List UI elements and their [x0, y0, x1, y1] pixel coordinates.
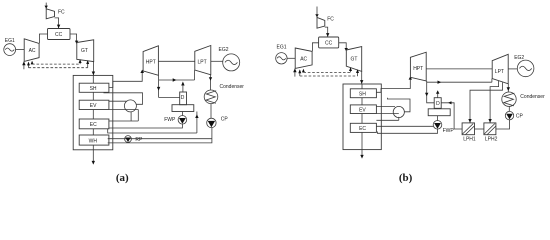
gas turbine GT (b) [346, 47, 361, 72]
svg-text:GT: GT [81, 48, 88, 54]
LPT extraction to LPH1 with arrow (b) [468, 82, 502, 123]
dashed cooling line upper [32, 63, 80, 65]
wire CC to GT with arrow [70, 34, 78, 44]
cooling air riser into GT (left) [79, 59, 82, 64]
evaporator EV [79, 100, 109, 109]
svg-text:HPT: HPT [413, 66, 423, 72]
feedwater pump FWP [164, 116, 187, 125]
svg-text:SH: SH [90, 86, 97, 92]
HPT exhaust wire down with arrow [157, 75, 160, 97]
wire shaft HPT-LPT (b) [426, 68, 492, 70]
wire LPH1 to tank (b) [441, 103, 462, 129]
compressor AC (b) [295, 48, 312, 69]
fuel compressor FC [46, 9, 54, 19]
cooling air riser into AC (b outer) [298, 69, 301, 76]
flue gas outlet arrow [92, 145, 95, 165]
wire condenser to CP (b) [508, 106, 510, 111]
wire EC to drum [109, 110, 138, 122]
gas path wire inside HRSG [92, 75, 94, 135]
svg-text:HPT: HPT [146, 59, 156, 65]
svg-text:FC: FC [327, 16, 334, 22]
wire HPT exhaust to deaerator [159, 97, 180, 99]
svg-text:FWP: FWP [164, 117, 176, 123]
svg-text:Condenser: Condenser [220, 84, 245, 90]
svg-text:LPT: LPT [198, 60, 207, 66]
generator EG1 (b) [276, 45, 287, 64]
deaerator D (b) [434, 98, 441, 109]
condensate pump CP [207, 116, 229, 127]
economizer EC (b) [350, 123, 376, 132]
wire condensate line through RP to WH [108, 138, 212, 140]
wire FWP to EC [109, 124, 182, 128]
svg-text:FWP: FWP [443, 128, 455, 134]
flue gas outlet arrow (b) [360, 150, 363, 159]
wire FWP discharge to EC (b) [377, 129, 437, 133]
wire FC to CC with arrow (b) [325, 27, 330, 37]
cooling air riser into AC (inner) [31, 61, 34, 65]
HRSG outer box (b) [343, 84, 381, 150]
svg-text:CC: CC [55, 32, 63, 38]
wire LPH2 to LPH1 (b) [475, 128, 484, 130]
deaerator vent arrow (b) [436, 90, 439, 97]
wire drum to SH [104, 92, 143, 104]
wire shaft HPT-LPT [158, 60, 194, 62]
wire CC to GT with arrow (b) [339, 43, 348, 52]
wire WH return line [108, 128, 212, 143]
svg-text:EV: EV [90, 103, 97, 109]
svg-text:(b): (b) [399, 172, 413, 184]
svg-text:EG1: EG1 [5, 38, 15, 44]
condenser [204, 84, 244, 104]
crossover wire to LPT with flow arrow [159, 70, 195, 82]
wire CP to LPH2 (b) [496, 120, 510, 129]
wire WH outlet to tank with arrow [108, 112, 199, 134]
dashed cooling line lower (b) [300, 75, 358, 77]
LP heater LPH2 [484, 123, 498, 143]
svg-text:AC: AC [300, 56, 307, 62]
svg-text:EG2: EG2 [219, 47, 229, 53]
svg-text:LPH1: LPH1 [463, 137, 476, 143]
wire SH to HPT with arrow (b) [376, 76, 412, 92]
combustion chamber CC (b) [319, 37, 339, 48]
wire SH to HPT with arrow [109, 70, 144, 88]
svg-text:D: D [181, 95, 185, 101]
cooling air riser into GT (b left) [349, 67, 352, 72]
svg-text:(a): (a) [116, 172, 129, 184]
generator EG2 (b) [514, 55, 534, 77]
condenser (b) [502, 92, 545, 106]
fuel inlet arrow [45, 3, 48, 9]
svg-text:EG2: EG2 [514, 55, 524, 61]
air inlet arrow into AC (b) [293, 68, 296, 76]
wire shaft EG1-AC [16, 49, 25, 51]
wire shaft LPT-EG2 [211, 60, 223, 62]
wire drum to SH (b) [387, 98, 410, 112]
gas turbine GT [77, 40, 94, 62]
wire tank to FWP (b) [437, 116, 439, 121]
svg-text:FC: FC [58, 10, 65, 16]
feedwater tank (b) [428, 109, 450, 116]
LPT exhaust arrow to condenser (b) [507, 84, 510, 92]
svg-text:SH: SH [359, 92, 366, 98]
fuel inlet arrow (b) [315, 7, 318, 18]
svg-text:WH: WH [89, 138, 98, 144]
cooling air riser into AC (b inner) [302, 69, 305, 73]
wire AC to CC [39, 34, 47, 43]
wire shaft EG1-AC (b) [287, 57, 295, 59]
evaporator EV (b) [350, 105, 376, 114]
LP heater LPH1 [462, 123, 476, 143]
HRSG outer box [73, 75, 113, 149]
GT exhaust wire with arrow into HRSG [92, 62, 95, 76]
HPT inlet arrow at corner [141, 70, 144, 73]
svg-text:AC: AC [29, 48, 36, 54]
svg-text:D: D [436, 101, 440, 107]
svg-text:CP: CP [516, 114, 524, 120]
wire shaft LPT-EG2 (b) [508, 68, 517, 70]
svg-text:EC: EC [359, 126, 366, 132]
turbine LPT [195, 46, 211, 75]
generator EG2 [219, 47, 240, 71]
wire tank to FWP [181, 112, 183, 116]
wire EC to FWP suction (b) [376, 125, 433, 127]
crossover wire to LPT with flow arrow (b) [427, 79, 492, 84]
air inlet arrow into AC [22, 61, 25, 69]
combustion chamber CC [48, 29, 71, 40]
dashed cooling line upper (b) [303, 71, 350, 73]
condensate pump CP (b) [505, 111, 523, 119]
wire AC to CC (b) [312, 43, 318, 52]
svg-text:LPH2: LPH2 [485, 137, 498, 143]
feedwater tank [172, 105, 194, 112]
GT exhaust wire with arrow into HRSG (b) [360, 71, 363, 84]
feedwater pump FWP (b) [433, 121, 454, 135]
wire condenser to CP [210, 104, 212, 119]
turbine HPT [143, 46, 158, 76]
steam drum (b) [393, 106, 404, 117]
recirculation pump RP [125, 136, 143, 144]
svg-text:EC: EC [90, 122, 97, 128]
svg-text:GT: GT [351, 56, 358, 62]
svg-text:CP: CP [221, 116, 229, 122]
compressor AC [24, 39, 39, 62]
HPT exhaust wire down to tank with arrow (b) [425, 81, 434, 103]
LPT extraction to LPH2 with arrow (b) [488, 81, 498, 123]
svg-text:CC: CC [325, 41, 333, 47]
superheater SH (b) [350, 89, 376, 98]
cooling air riser into GT (b right) [356, 69, 359, 76]
svg-text:RP: RP [135, 137, 143, 143]
water heater WH [79, 135, 109, 145]
gas path wire inside HRSG (b) [361, 84, 363, 150]
deaerator vent arrow [181, 82, 184, 93]
svg-text:Condenser: Condenser [520, 94, 545, 100]
svg-text:EG1: EG1 [277, 45, 287, 51]
generator EG1 [4, 38, 16, 55]
wire EV risers to drum [109, 101, 138, 109]
superheater SH [79, 83, 109, 92]
turbine HPT (b) [410, 52, 426, 81]
svg-text:LPT: LPT [495, 69, 504, 75]
svg-text:EV: EV [359, 108, 366, 114]
wire EV risers to drum (b) [376, 106, 398, 113]
wire FC to CC with arrow [55, 18, 61, 28]
economizer EC [79, 119, 109, 129]
wire EC to drum (b) [376, 117, 398, 120]
dashed cooling line lower [29, 67, 88, 69]
cooling air riser into AC (outer) [27, 62, 30, 68]
steam drum [124, 100, 136, 112]
cooling air riser into GT (right) [86, 60, 89, 67]
fuel compressor FC (b) [317, 17, 325, 28]
turbine LPT (b) [492, 54, 508, 84]
deaerator D [180, 92, 187, 105]
LPT exhaust arrow to condenser [209, 75, 212, 90]
